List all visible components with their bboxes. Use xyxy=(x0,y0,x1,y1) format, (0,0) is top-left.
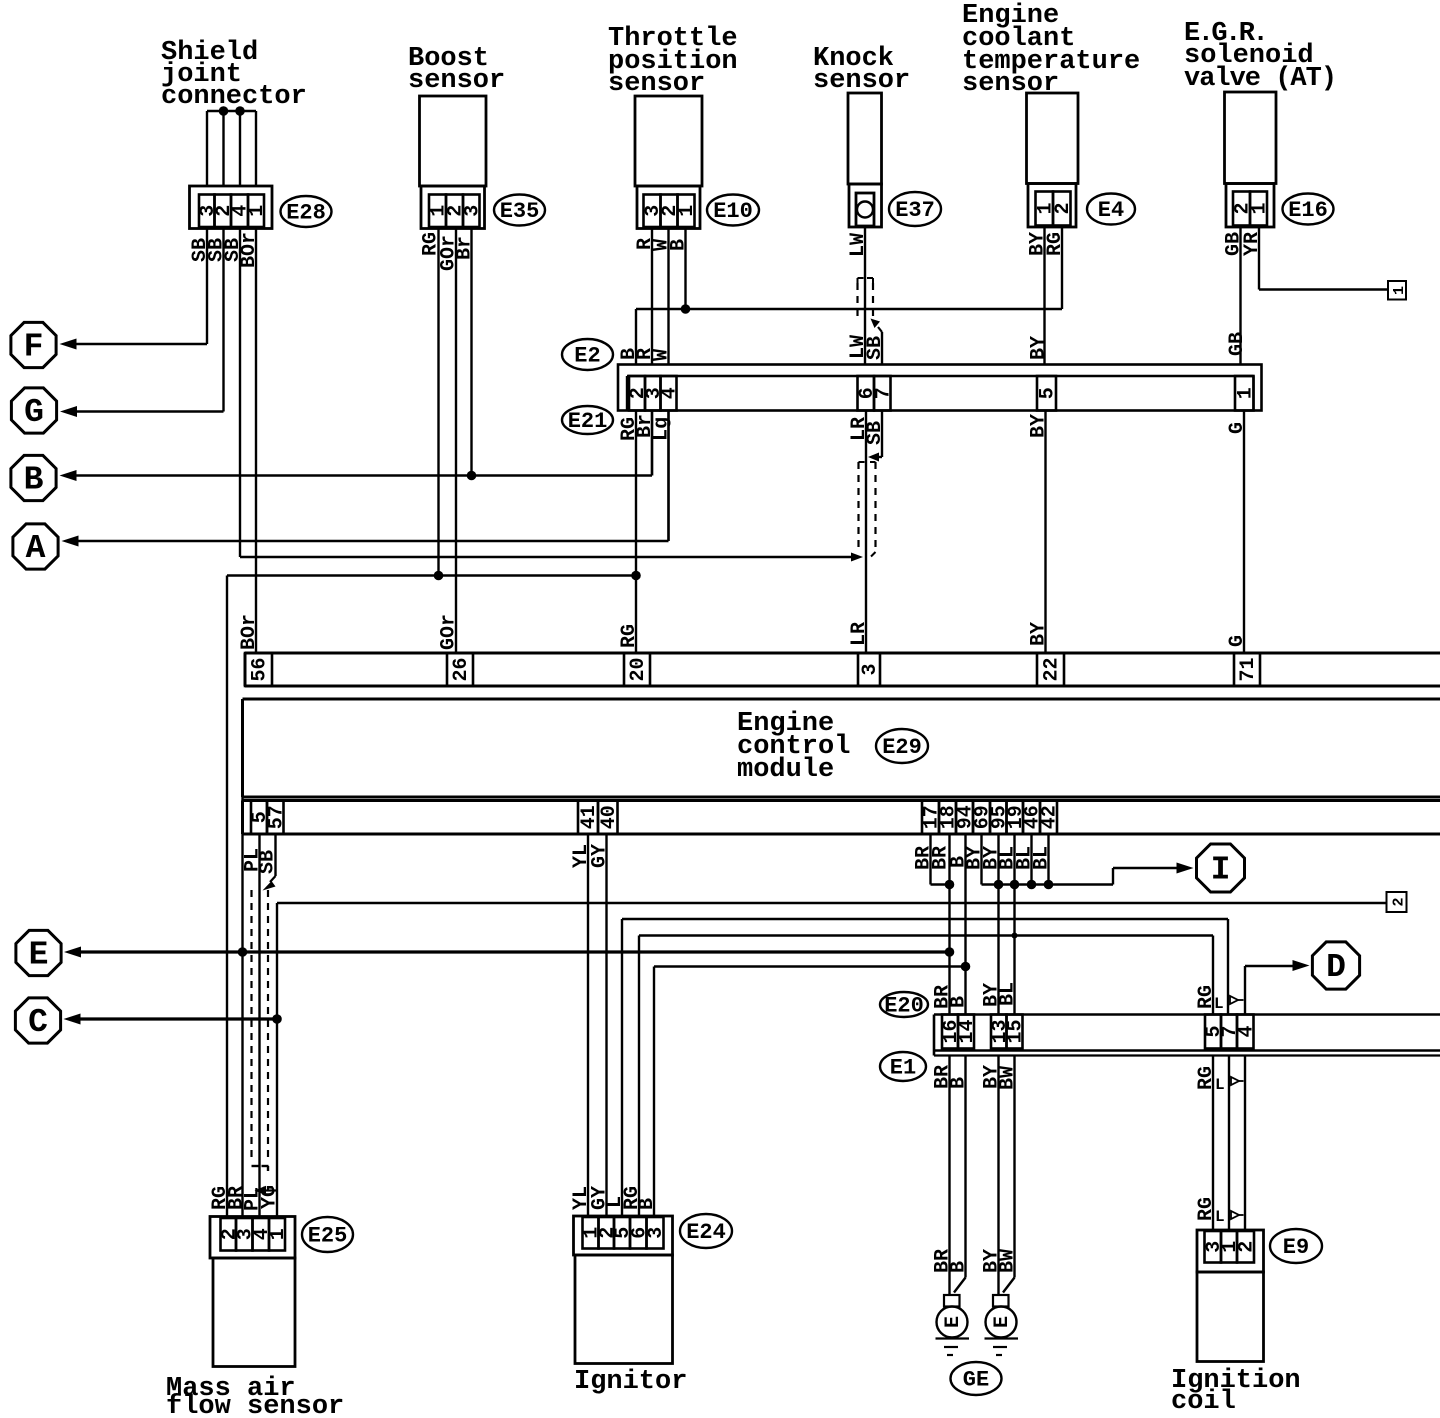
label LW E37 xyxy=(847,233,870,257)
svg-text:BL: BL xyxy=(1031,846,1054,870)
connector E xyxy=(16,930,61,975)
svg-text:7: 7 xyxy=(872,387,895,399)
label GY above ignitor xyxy=(589,1186,612,1210)
label RG below E21 pin2 xyxy=(618,417,641,441)
svg-text:1: 1 xyxy=(676,205,699,217)
connector E35 xyxy=(421,186,485,229)
svg-text:E2: E2 xyxy=(574,344,600,369)
label W near E2 xyxy=(651,349,674,361)
svg-text:BOr: BOr xyxy=(238,614,261,650)
wire BR E1 to ground xyxy=(948,1056,950,1296)
connector C xyxy=(15,998,60,1043)
wire GY ECM 40 to ignitor pin2 xyxy=(605,834,607,1216)
wire BY ECM 69 xyxy=(982,834,999,885)
connector ref E4 xyxy=(1087,194,1135,225)
terminal 2 xyxy=(1387,892,1408,912)
label B above ignitor xyxy=(636,1198,659,1210)
ECM module box xyxy=(243,699,1440,797)
connector E28 xyxy=(190,186,273,229)
svg-text:GY: GY xyxy=(589,844,612,868)
label SB E28 pin2 xyxy=(206,238,229,262)
svg-text:B: B xyxy=(24,462,44,499)
svg-text:E35: E35 xyxy=(500,199,540,224)
wire Br E35 pin3 to B line xyxy=(470,229,472,476)
label RG below E1 xyxy=(1195,1066,1218,1090)
svg-text:BW: BW xyxy=(997,1249,1020,1273)
label B E10 pin1 xyxy=(668,239,691,251)
wire D line xyxy=(1245,960,1310,1015)
svg-text:sensor: sensor xyxy=(608,69,705,99)
wire SB E28 pin2 upper xyxy=(222,111,224,186)
wire to F xyxy=(60,229,208,350)
label LR below E21 pin6 xyxy=(848,417,871,441)
svg-text:E: E xyxy=(991,1316,1014,1328)
label BR ECM 17 xyxy=(913,846,936,870)
label BL ECM 19 xyxy=(997,846,1020,870)
label RG above E20 xyxy=(1195,985,1218,1009)
wire SB ECM 57 drain xyxy=(263,834,276,891)
label Mass air flow sensor xyxy=(166,1374,344,1418)
svg-text:E25: E25 xyxy=(308,1224,348,1249)
label G below E21 pin1 xyxy=(1226,422,1249,434)
label YL below ECM xyxy=(570,844,593,868)
label RG E4 pin2 xyxy=(1044,232,1067,256)
svg-text:E16: E16 xyxy=(1288,198,1328,223)
svg-text:1: 1 xyxy=(1249,202,1272,214)
svg-text:56: 56 xyxy=(249,657,272,681)
svg-text:4: 4 xyxy=(1235,1025,1258,1037)
wire PL ECM 5 to MAF pin4 xyxy=(258,834,260,1217)
wire LR E21 pin6 to ECM 3 xyxy=(865,411,867,654)
wire GB E16 pin2 to E2 pin1 xyxy=(1239,226,1241,366)
label PL above MAF xyxy=(242,1187,265,1211)
svg-text:B: B xyxy=(636,1198,659,1210)
label Br E35 pin3 xyxy=(454,236,477,260)
label B above E20 xyxy=(948,996,971,1008)
wire GOr E35 pin2 to ECM 26 xyxy=(455,229,457,654)
connector B xyxy=(11,455,56,500)
connector F xyxy=(11,322,56,367)
connector G xyxy=(11,388,56,433)
connector ref E37 xyxy=(889,192,941,226)
connector E20/E1 xyxy=(934,1015,1440,1056)
svg-text:15: 15 xyxy=(1005,1019,1028,1043)
svg-text:2: 2 xyxy=(1052,202,1075,214)
connector ref E28 xyxy=(281,196,332,227)
svg-text:G: G xyxy=(1226,635,1249,647)
svg-text:D: D xyxy=(1326,949,1346,986)
label B ECM 94 xyxy=(948,856,971,868)
svg-text:BW: BW xyxy=(997,1066,1020,1090)
label YL above ignitor xyxy=(570,1186,593,1210)
node shield joint bus xyxy=(207,106,256,116)
connector ref E2 xyxy=(562,339,613,370)
label BR above ground xyxy=(932,1249,955,1273)
svg-text:Ignitor: Ignitor xyxy=(574,1367,687,1397)
connector E4 xyxy=(1028,184,1076,228)
label YG above MAF xyxy=(259,1185,282,1209)
svg-text:42: 42 xyxy=(1039,805,1062,829)
label GB E16 pin2 xyxy=(1223,232,1246,256)
connector A xyxy=(13,524,58,569)
component coolant temp sensor body xyxy=(1027,93,1079,184)
svg-text:G: G xyxy=(1226,422,1249,434)
label Shield joint connector xyxy=(161,38,307,112)
shield PL wire xyxy=(252,890,269,1171)
svg-text:E10: E10 xyxy=(713,199,753,224)
wire Br E21 pin3 segment xyxy=(651,411,653,476)
wire BR ECM 17 xyxy=(931,834,950,885)
label E.G.R. solenoid valve (AT) xyxy=(1184,19,1336,94)
svg-text:3: 3 xyxy=(645,1227,668,1239)
label R near E2 xyxy=(634,348,657,360)
label LW near E2 xyxy=(847,335,870,359)
label BY ECM 95 xyxy=(981,846,1004,870)
label BW above ground xyxy=(997,1249,1020,1273)
svg-text:connector: connector xyxy=(161,82,307,112)
ECM lower pin row xyxy=(243,801,1440,835)
svg-text:20: 20 xyxy=(627,657,650,681)
svg-text:3: 3 xyxy=(859,663,882,675)
connector ref E9 xyxy=(1270,1229,1322,1263)
label SB below ECM xyxy=(257,850,280,874)
svg-text:E1: E1 xyxy=(890,1056,916,1081)
svg-text:F: F xyxy=(24,329,44,366)
wire SB E28 pin4 to shield xyxy=(240,229,863,562)
shield drain arrow near MAF xyxy=(255,1186,278,1196)
label BY below E21 pin5 xyxy=(1028,414,1051,438)
wire Y E1 to coil pin2 xyxy=(1244,1056,1246,1231)
wire bus to I xyxy=(999,863,1194,885)
svg-text:E28: E28 xyxy=(286,201,326,226)
label GY below ECM xyxy=(589,844,612,868)
wire BL ECM 42 xyxy=(1044,834,1054,889)
label BW below E1 xyxy=(997,1066,1020,1090)
svg-text:G: G xyxy=(24,394,44,431)
wire RG E1 to coil pin3 xyxy=(1212,1056,1214,1231)
component EGR solenoid valve body xyxy=(1225,92,1277,184)
wire to A xyxy=(62,411,669,547)
label B below E1 xyxy=(948,1077,971,1089)
wire W E10 pin2 to E2 xyxy=(667,229,669,366)
wire RG junction line xyxy=(227,571,637,581)
connector ref E21 xyxy=(562,406,613,434)
svg-text:RG: RG xyxy=(618,624,641,648)
connector ref E1 xyxy=(880,1052,926,1081)
wire SB shield drain E37 xyxy=(871,319,883,366)
svg-text:B: B xyxy=(948,996,971,1008)
label BY above ECM xyxy=(1028,622,1051,646)
wire RG E35 pin1 to junction xyxy=(437,229,439,576)
label Engine control module xyxy=(737,709,850,785)
svg-text:YG: YG xyxy=(259,1185,282,1209)
wire BY E4 pin1 to E2 pin5 xyxy=(1043,226,1045,366)
label RG above coil xyxy=(1195,1197,1218,1221)
shield knock sensor xyxy=(858,278,874,322)
svg-text:flow sensor: flow sensor xyxy=(166,1392,344,1418)
hook L above E20 xyxy=(1214,995,1244,1013)
wire BY E1 to ground xyxy=(997,1056,999,1296)
label W E10 pin2 xyxy=(651,239,674,251)
svg-text:40: 40 xyxy=(598,805,621,829)
component ignition coil body xyxy=(1197,1272,1264,1362)
label B above ground xyxy=(948,1261,971,1273)
label BY E4 pin1 xyxy=(1027,232,1050,256)
label GOr above ECM xyxy=(438,614,461,650)
label B near E2 xyxy=(618,348,641,360)
svg-text:SB: SB xyxy=(864,336,887,360)
svg-text:BY: BY xyxy=(1028,622,1051,646)
svg-text:LR: LR xyxy=(848,622,871,646)
ground E right xyxy=(985,1295,1019,1355)
label BOr E28 pin1 xyxy=(238,232,261,268)
label BL ECM 46 xyxy=(1014,846,1037,870)
svg-text:SB: SB xyxy=(257,850,280,874)
label BY above E20 xyxy=(981,983,1004,1007)
svg-text:5: 5 xyxy=(1037,387,1060,399)
connector E37 xyxy=(849,184,882,227)
svg-text:E: E xyxy=(29,937,49,974)
svg-text:E29: E29 xyxy=(882,735,922,760)
svg-text:E9: E9 xyxy=(1283,1235,1309,1260)
label BR below E1 xyxy=(932,1065,955,1089)
svg-text:3: 3 xyxy=(461,205,484,217)
connector ref E16 xyxy=(1283,194,1334,225)
label BY ECM 69 xyxy=(964,846,987,870)
connector ref E20 xyxy=(880,992,928,1019)
wire to G xyxy=(60,229,224,418)
connector I xyxy=(1197,844,1245,892)
label SB E28 pin4 xyxy=(222,238,245,262)
svg-text:YR: YR xyxy=(1241,232,1264,256)
svg-text:2: 2 xyxy=(1391,897,1408,906)
label BR above MAF xyxy=(226,1186,249,1210)
svg-text:sensor: sensor xyxy=(813,66,910,96)
label YR E16 pin1 xyxy=(1241,232,1264,256)
svg-text:valve (AT): valve (AT) xyxy=(1184,64,1336,94)
ground E left xyxy=(936,1295,970,1355)
svg-text:2: 2 xyxy=(1236,1241,1259,1253)
wire Lg E21 pin4 segment xyxy=(667,411,669,542)
svg-text:B: B xyxy=(948,1261,971,1273)
wire B branch to ignitor pin3 xyxy=(654,967,966,1217)
svg-text:BL: BL xyxy=(997,982,1020,1006)
svg-text:RG: RG xyxy=(1195,985,1218,1009)
svg-text:E24: E24 xyxy=(686,1220,726,1245)
svg-text:E4: E4 xyxy=(1098,198,1124,223)
connector D xyxy=(1312,942,1359,989)
wire G E21 pin1 to ECM 71 xyxy=(1243,411,1245,654)
svg-text:22: 22 xyxy=(1041,657,1064,681)
svg-text:L: L xyxy=(1215,1208,1225,1226)
svg-text:14: 14 xyxy=(956,1019,979,1043)
svg-text:B: B xyxy=(948,1077,971,1089)
label GOr E35 pin2 xyxy=(438,235,461,271)
label L above ignitor xyxy=(604,1196,627,1208)
svg-text:26: 26 xyxy=(450,657,473,681)
label BY near E2 xyxy=(1028,336,1051,360)
svg-text:E21: E21 xyxy=(568,409,608,434)
connector ref E24 xyxy=(680,1214,732,1248)
wire RG ignitor to E20 5 xyxy=(639,936,1213,1217)
svg-text:E20: E20 xyxy=(884,994,924,1019)
label RG E35 pin1 xyxy=(420,232,443,256)
svg-text:E: E xyxy=(942,1316,965,1328)
svg-text:1: 1 xyxy=(246,205,269,217)
svg-text:1: 1 xyxy=(1234,387,1257,399)
label Br below E21 pin3 xyxy=(634,414,657,438)
svg-text:BY: BY xyxy=(1028,336,1051,360)
svg-text:LW: LW xyxy=(847,233,870,257)
label RG above ignitor xyxy=(621,1186,644,1210)
connector ref E35 xyxy=(494,195,545,226)
connector ref E29 xyxy=(876,729,928,763)
ground ref GE xyxy=(951,1362,1002,1395)
wire YR E16 pin1 to terminal 1 xyxy=(1259,226,1388,290)
wire BW E1 to ground xyxy=(1003,1056,1015,1293)
label Ignitor xyxy=(574,1367,687,1397)
svg-text:C: C xyxy=(28,1004,48,1041)
label Throttle position sensor xyxy=(608,24,738,99)
wire BL ECM 19 to E20 15 xyxy=(1010,834,1020,1015)
connector E25 xyxy=(210,1217,295,1259)
wire SB E28 pin3 upper xyxy=(206,111,208,186)
label BY above ground xyxy=(981,1249,1004,1273)
wire L ignitor to E20 7 xyxy=(622,919,1228,1216)
component throttle position sensor body xyxy=(635,96,702,186)
wire SB E21 pin7 drain xyxy=(868,411,882,462)
wire LW E37 to E2 pin6 xyxy=(864,227,866,365)
svg-text:GE: GE xyxy=(963,1368,989,1393)
connector E9 xyxy=(1197,1230,1264,1272)
wire BR ECM edge to MAF pin3 xyxy=(241,699,243,1217)
svg-text:BOr: BOr xyxy=(238,232,261,268)
svg-text:E37: E37 xyxy=(895,198,935,223)
wire YG to terminal 2 xyxy=(272,903,1386,1217)
wire BL ECM 46 xyxy=(1027,834,1037,889)
connector E24 xyxy=(574,1216,673,1255)
label SB E28 pin3 xyxy=(189,238,212,262)
svg-text:L: L xyxy=(1215,1076,1225,1094)
label Lg below E21 pin4 xyxy=(651,417,674,441)
ECM top pin row xyxy=(245,653,1440,686)
label Boost sensor xyxy=(408,44,505,96)
label BR above E20 xyxy=(932,985,955,1009)
svg-text:71: 71 xyxy=(1237,657,1260,681)
label BL ECM 42 xyxy=(1031,846,1054,870)
wire R E10 pin3 to E2 xyxy=(651,229,653,366)
svg-text:1: 1 xyxy=(1391,286,1408,295)
svg-text:BY: BY xyxy=(1028,414,1051,438)
svg-text:module: module xyxy=(737,755,834,785)
component MAF sensor body xyxy=(213,1258,295,1367)
svg-text:W: W xyxy=(651,349,674,361)
svg-text:57: 57 xyxy=(265,805,288,829)
wire YL ECM 41 to ignitor pin1 xyxy=(587,834,589,1216)
svg-text:Lg: Lg xyxy=(651,417,674,441)
hook L above coil xyxy=(1215,1208,1244,1226)
svg-text:sensor: sensor xyxy=(962,69,1059,99)
label RG above ECM xyxy=(618,624,641,648)
wire B E1 to ground xyxy=(954,1056,966,1293)
wire SB E28 pin4 upper xyxy=(239,111,241,186)
wire to B xyxy=(60,411,653,482)
connector ref E10 xyxy=(707,195,759,226)
component knock sensor body xyxy=(848,93,882,184)
wire B net horizontal xyxy=(636,308,1062,310)
svg-text:B: B xyxy=(668,239,691,251)
label BR ECM 18 xyxy=(930,846,953,870)
connector E10 xyxy=(637,186,700,229)
label R E10 pin3 xyxy=(634,238,657,250)
label Knock sensor xyxy=(813,44,910,96)
hook L below E1 xyxy=(1215,1076,1244,1094)
label LR above ECM xyxy=(848,622,871,646)
connector E2/E21 joint xyxy=(618,365,1262,411)
svg-text:RG: RG xyxy=(1044,232,1067,256)
wire RG E4 pin2 down xyxy=(1061,227,1063,309)
wire C line xyxy=(64,1014,278,1025)
wire B E10 pin1 to junction xyxy=(681,229,691,314)
wire BR ECM 18 to E20 16 xyxy=(945,834,955,1015)
label SB near E2 xyxy=(864,336,887,360)
component boost sensor body xyxy=(420,96,487,186)
wire E line xyxy=(64,947,950,958)
label SB below E21 pin7 xyxy=(864,421,887,445)
wire BY ECM 95 to E20 13 xyxy=(994,834,1004,1015)
label GB lower E16 xyxy=(1226,332,1249,356)
label Engine coolant temperature sensor xyxy=(962,1,1140,99)
wire BY E21 pin5 to ECM 22 xyxy=(1044,411,1046,654)
svg-text:sensor: sensor xyxy=(408,66,505,96)
wire B ECM 94 to E20 14 xyxy=(961,834,971,1015)
label G above ECM xyxy=(1226,635,1249,647)
wire BOr E28 pin1 upper xyxy=(255,111,257,186)
svg-text:GOr: GOr xyxy=(438,614,461,650)
svg-text:GB: GB xyxy=(1226,332,1249,356)
label BOr above ECM xyxy=(238,614,261,650)
wire B net corner to E2 pin2 xyxy=(635,309,637,365)
connector ref E25 xyxy=(302,1217,353,1252)
component ignitor body xyxy=(575,1255,673,1364)
connector E16 xyxy=(1226,184,1274,228)
svg-text:A: A xyxy=(26,530,46,567)
svg-text:I: I xyxy=(1211,852,1231,889)
terminal 1 xyxy=(1388,281,1408,300)
label PL below ECM xyxy=(242,848,265,872)
svg-text:1: 1 xyxy=(267,1228,290,1240)
label Ignition coil xyxy=(1171,1366,1301,1417)
wire RG E21 pin2 to ECM 20 xyxy=(631,411,641,654)
svg-text:4: 4 xyxy=(659,387,682,399)
svg-text:coil: coil xyxy=(1171,1387,1236,1417)
wire BOr E28 pin1 to ECM 56 xyxy=(255,229,257,654)
label BY below E1 xyxy=(981,1065,1004,1089)
wire RG to MAF pin2 xyxy=(226,576,228,1217)
label BL above E20 xyxy=(997,982,1020,1006)
shield LR wire xyxy=(859,462,876,557)
label RG above MAF xyxy=(209,1186,232,1210)
wire L E1 to coil pin1 xyxy=(1228,1056,1230,1231)
svg-text:SB: SB xyxy=(864,421,887,445)
